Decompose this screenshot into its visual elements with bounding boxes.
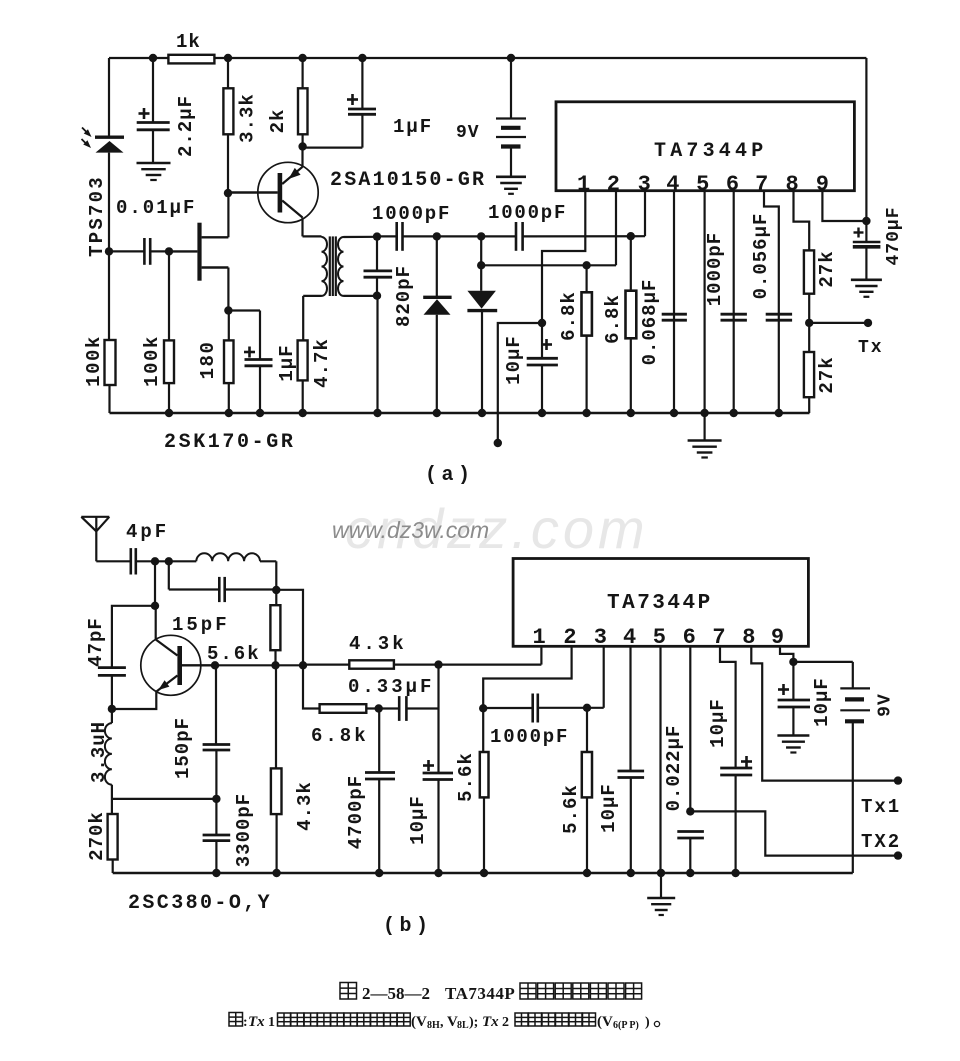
junction: [165, 247, 173, 255]
inductor (antenna coil): [196, 553, 260, 561]
svg-text:www.dz3w.com: www.dz3w.com: [332, 517, 489, 543]
wire bottom ground rail (a): [110, 412, 810, 414]
svg-text:100k: 100k: [83, 335, 105, 387]
svg-text:5: 5: [653, 625, 666, 650]
svg-text:10µF: 10µF: [407, 795, 429, 845]
battery 9V (b): [793, 661, 852, 663]
svg-text:2SK170-GR: 2SK170-GR: [164, 431, 295, 454]
wire pin2 net: [481, 264, 616, 266]
junction: [434, 660, 442, 668]
resistor 27k (upper): [794, 192, 810, 251]
svg-text:8: 8: [742, 625, 755, 650]
junction: [373, 409, 381, 417]
transistor 2SK170-GR (JFET): [197, 223, 201, 281]
junction: [224, 189, 232, 197]
capacitor 470uF with ground: [853, 241, 881, 243]
junction: [789, 658, 797, 666]
svg-text:150pF: 150pF: [172, 717, 194, 779]
svg-text:8: 8: [785, 172, 798, 197]
capacitor 10uF (a): [541, 323, 543, 358]
svg-text:4.7k: 4.7k: [311, 338, 333, 388]
svg-text:10µF: 10µF: [598, 783, 620, 833]
junction: [272, 586, 280, 594]
svg-text:0.01µF: 0.01µF: [116, 197, 196, 219]
transformer T1: [303, 235, 322, 237]
junction: [478, 409, 486, 417]
svg-text:0.068µF: 0.068µF: [639, 279, 661, 366]
svg-text:27k: 27k: [816, 356, 838, 393]
resistor 6.8k (horizontal): [303, 665, 320, 708]
junction: [212, 869, 220, 877]
junction: [627, 409, 635, 417]
junction: [271, 661, 279, 669]
capacitor 3300pF: [215, 799, 217, 835]
svg-text:2—58—2: 2—58—2: [362, 984, 430, 1003]
capacitor 47pF: [112, 606, 155, 668]
svg-text:0.056µF: 0.056µF: [750, 213, 772, 300]
capacitor 0.01uF: [109, 250, 144, 252]
battery 9V (a) with ground: [510, 58, 512, 119]
junction: [479, 704, 487, 712]
junction: [731, 869, 739, 877]
wire emitter feedback: [112, 798, 217, 800]
svg-text:9: 9: [816, 172, 829, 197]
junction: [686, 807, 694, 815]
svg-text:5.6k: 5.6k: [560, 784, 582, 834]
resistor 100k (input, left): [108, 251, 110, 340]
svg-text:TA7344P: TA7344P: [654, 140, 767, 163]
node TX2: [690, 811, 898, 855]
wire bottom ground rail (b): [113, 872, 853, 874]
svg-text:7: 7: [755, 172, 768, 197]
svg-text:2k: 2k: [267, 109, 289, 134]
wire pin5 to ground: [703, 192, 705, 414]
svg-text:9: 9: [771, 625, 784, 650]
capacitor 1uF (source bypass): [228, 309, 260, 311]
svg-text:1k: 1k: [176, 31, 201, 53]
junction: [298, 142, 306, 150]
junction: [151, 602, 159, 610]
svg-text:2SA10150-GR: 2SA10150-GR: [330, 169, 486, 192]
svg-text:4.3k: 4.3k: [349, 633, 407, 655]
svg-text:5.6k: 5.6k: [455, 752, 477, 802]
junction: [149, 54, 157, 62]
svg-text:3300pF: 3300pF: [233, 793, 255, 867]
junction: [108, 705, 116, 713]
junction: [583, 704, 591, 712]
capacitor 1000pF (pin6): [733, 192, 735, 414]
capacitor 0.022uF: [689, 646, 691, 811]
capacitor 1000pF (b): [483, 707, 533, 709]
capacitor 10uF (pin7): [720, 646, 736, 768]
svg-text:10µF: 10µF: [707, 698, 729, 748]
svg-text:6.8k: 6.8k: [311, 725, 369, 747]
capacitor 15pF: [168, 561, 170, 589]
resistor 5.6k (collector): [275, 590, 277, 605]
svg-text:6.8k: 6.8k: [558, 291, 580, 341]
junction: [212, 795, 220, 803]
junction: [298, 54, 306, 62]
junction: [433, 232, 441, 240]
junction: [805, 319, 813, 327]
svg-text:1000pF: 1000pF: [490, 726, 569, 748]
capacitor 10uF (pin4): [629, 646, 631, 771]
inductor 3.3uH: [111, 709, 113, 723]
svg-text:,: ,: [440, 1015, 444, 1030]
junction: [862, 217, 870, 225]
svg-text:4pF: 4pF: [126, 521, 169, 543]
junction: [433, 409, 441, 417]
capacitor 10uF (b, first): [437, 665, 439, 773]
svg-text:820pF: 820pF: [393, 265, 415, 327]
junction: [538, 319, 546, 327]
svg-text:1µF: 1µF: [393, 116, 433, 138]
svg-text:10µF: 10µF: [811, 677, 833, 727]
svg-text:180: 180: [197, 341, 219, 380]
svg-text:470µF: 470µF: [884, 206, 904, 265]
resistor 180: [228, 311, 230, 341]
svg-text:0.022µF: 0.022µF: [663, 725, 685, 812]
svg-text:8H: 8H: [427, 1020, 440, 1031]
junction: [105, 247, 113, 255]
svg-text:): ): [645, 1015, 650, 1030]
svg-text:4.3k: 4.3k: [294, 781, 316, 831]
junction: [358, 54, 366, 62]
junction: [582, 409, 590, 417]
capacitor 1uF (emitter bypass): [361, 58, 363, 109]
junction: [627, 869, 635, 877]
wire left edge from rail to photodiode: [108, 58, 110, 136]
junction: [477, 232, 485, 240]
svg-text:4700pF: 4700pF: [345, 775, 367, 849]
svg-text:TA7344P: TA7344P: [607, 592, 713, 615]
junction: [375, 704, 383, 712]
junction: [434, 869, 442, 877]
transistor Q1 2SA1015-GR (PNP): [258, 162, 318, 222]
svg-text:6: 6: [683, 625, 696, 650]
resistor 6.8k (pin3 side): [630, 236, 632, 291]
wire pin1 drop (b): [540, 646, 542, 664]
svg-text:9V: 9V: [876, 693, 896, 717]
resistor 27k (lower): [804, 352, 814, 397]
svg-text:2SC380-O,Y: 2SC380-O,Y: [128, 892, 272, 915]
svg-text:0.33µF: 0.33µF: [348, 676, 434, 698]
junction: [272, 869, 280, 877]
junction: [775, 409, 783, 417]
svg-text:1: 1: [532, 625, 545, 650]
resistor 100k (gate): [168, 251, 170, 340]
node Tx output: [809, 322, 868, 324]
svg-text:);: );: [469, 1015, 478, 1030]
svg-text:Tx: Tx: [248, 1014, 265, 1030]
junction: [507, 54, 515, 62]
svg-text:2: 2: [607, 172, 620, 197]
junction: [657, 869, 665, 877]
wire right edge supply drop: [865, 58, 867, 242]
wire pin3 jog: [644, 192, 646, 237]
svg-text:1000pF: 1000pF: [488, 202, 567, 224]
wire top supply rail (a): [109, 57, 866, 59]
resistor 270k: [108, 814, 118, 860]
svg-text:4: 4: [623, 625, 636, 650]
svg-text:6.8k: 6.8k: [602, 294, 624, 344]
capacitor 1000pF (series, right): [515, 222, 518, 251]
wire pin5 to ground (b): [659, 646, 661, 873]
wire base net (b): [215, 664, 303, 666]
svg-text:4: 4: [666, 172, 679, 197]
svg-text:TPS703: TPS703: [86, 175, 108, 257]
capacitor 2.2uF with ground: [152, 58, 154, 123]
capacitor 820pF: [376, 236, 378, 271]
svg-text:3: 3: [594, 625, 607, 650]
svg-text:1µF: 1µF: [276, 344, 298, 381]
junction: [627, 232, 635, 240]
svg-text:27k: 27k: [816, 250, 838, 287]
svg-text:2: 2: [563, 625, 576, 650]
svg-text:15pF: 15pF: [172, 614, 230, 636]
svg-text:2.2µF: 2.2µF: [175, 95, 197, 157]
junction: [686, 869, 694, 877]
transistor Q2 2SC380 (NPN): [141, 635, 201, 695]
junction: [165, 409, 173, 417]
junction: [730, 409, 738, 417]
junction: [477, 261, 485, 269]
photodiode TPS703: [95, 135, 124, 138]
capacitor 4pF: [96, 560, 131, 562]
svg-text:2: 2: [502, 1015, 509, 1030]
caption note: [229, 1013, 243, 1027]
junction: [700, 409, 708, 417]
svg-text:Tx1: Tx1: [861, 796, 901, 818]
svg-text:47pF: 47pF: [85, 617, 107, 667]
resistor 2k: [302, 58, 304, 88]
junction: [299, 661, 307, 669]
diode D1: [436, 236, 438, 296]
capacitor 0.33uF: [398, 696, 401, 721]
junction: [583, 869, 591, 877]
junction: [224, 306, 232, 314]
diode D2: [480, 236, 482, 265]
junction: [211, 661, 219, 669]
resistor 4.3k (vertical): [275, 665, 277, 768]
svg-text:1: 1: [577, 172, 590, 197]
svg-text:1000pF: 1000pF: [372, 203, 451, 225]
resistor 5.6k (pin3): [586, 708, 588, 752]
capacitor 0.056uF (pin7): [764, 192, 779, 414]
capacitor 1000pF (series, left): [395, 222, 398, 251]
op-amp IC U2 TA7344P (b): [513, 559, 808, 647]
junction: [299, 409, 307, 417]
caption title: [340, 983, 357, 1000]
svg-text:8L: 8L: [457, 1020, 469, 1031]
svg-text:270k: 270k: [86, 811, 108, 861]
svg-text:5: 5: [696, 172, 709, 197]
antenna: [81, 516, 109, 518]
svg-text:1: 1: [268, 1015, 275, 1030]
resistor 6.8k (pin1/2 side): [585, 265, 587, 292]
op-amp IC U1 TA7344P (a): [556, 102, 854, 191]
svg-text:TX2: TX2: [861, 831, 901, 853]
junction: [224, 54, 232, 62]
svg-text:100k: 100k: [141, 335, 163, 387]
junction: [256, 409, 264, 417]
resistor 4.3k (horizontal): [303, 663, 349, 665]
wire stepped collector net: [276, 590, 303, 666]
junction: [151, 557, 159, 565]
svg-text::: :: [243, 1015, 248, 1030]
svg-text:6(P P): 6(P P): [613, 1020, 639, 1031]
svg-text:Tx: Tx: [858, 338, 884, 358]
capacitor 10uF (pin9) with ground: [780, 646, 793, 662]
wire pin3 drop (b): [603, 646, 605, 708]
junction: [225, 409, 233, 417]
resistor 4.7k: [302, 296, 304, 341]
svg-text:1000pF: 1000pF: [704, 232, 726, 306]
resistor 3.3k: [227, 58, 229, 88]
wire pin4 with 0.068uF: [673, 192, 675, 414]
svg-text:3.3uH: 3.3uH: [88, 721, 110, 783]
svg-text:(a): (a): [425, 464, 475, 487]
resistor 1k: [168, 55, 214, 64]
junction: [670, 409, 678, 417]
svg-text:6: 6: [726, 172, 739, 197]
wire pin9 to supply: [822, 192, 866, 222]
junction: [373, 292, 381, 300]
node Tx1: [751, 646, 898, 780]
wire detector net: [403, 235, 517, 237]
svg-text:Tx: Tx: [482, 1014, 499, 1030]
svg-text:9V: 9V: [456, 123, 480, 143]
capacitor 150pF: [215, 665, 217, 744]
resistor 5.6k (pin2): [483, 646, 571, 708]
svg-text:(V: (V: [411, 1014, 427, 1030]
wire pin1 to 10uF: [542, 192, 585, 324]
capacitor 4700pF: [378, 709, 380, 773]
svg-text:10µF: 10µF: [503, 335, 525, 385]
junction: [375, 869, 383, 877]
junction: [582, 261, 590, 269]
wire output stub: [498, 323, 542, 443]
svg-text:TA7344P: TA7344P: [445, 984, 515, 1003]
junction: [165, 557, 173, 565]
junction: [480, 869, 488, 877]
junction: [373, 232, 381, 240]
svg-text:(V: (V: [597, 1014, 613, 1030]
junction: [538, 409, 546, 417]
svg-text:3.3k: 3.3k: [237, 93, 259, 143]
svg-text:7: 7: [712, 625, 725, 650]
svg-text:(b): (b): [383, 915, 433, 938]
